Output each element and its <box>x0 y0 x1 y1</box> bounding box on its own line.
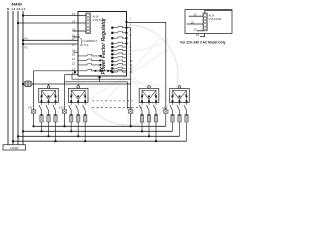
svg-text:16: 16 <box>196 33 200 37</box>
svg-text:20: 20 <box>191 21 195 25</box>
svg-text:14: 14 <box>72 20 76 24</box>
svg-text:17: 17 <box>72 37 76 41</box>
svg-text:P1: P1 <box>25 37 29 41</box>
svg-text:/ 5 A: / 5 A <box>83 43 89 47</box>
svg-text:15: 15 <box>194 27 198 31</box>
svg-text:13: 13 <box>72 12 76 16</box>
svg-text:P2: P2 <box>25 46 29 50</box>
svg-text:L3: L3 <box>11 7 15 11</box>
svg-text:L2: L2 <box>16 7 20 11</box>
svg-text:LOAD: LOAD <box>10 146 19 150</box>
svg-text:22: 22 <box>72 61 76 65</box>
svg-text:K11: K11 <box>28 105 33 109</box>
svg-text:VOLTAGE: VOLTAGE <box>209 17 222 21</box>
svg-text:21: 21 <box>72 57 76 61</box>
svg-text:13: 13 <box>194 13 198 17</box>
svg-text:K14: K14 <box>162 106 167 110</box>
svg-text:18: 18 <box>72 43 76 47</box>
svg-text:VOLTAGE: VOLTAGE <box>93 18 107 22</box>
svg-text:K12: K12 <box>59 105 64 109</box>
svg-text:For 220~240 V AC Model Only: For 220~240 V AC Model Only <box>180 40 225 44</box>
svg-text:15: 15 <box>72 28 76 32</box>
svg-text:L1: L1 <box>21 7 25 11</box>
svg-text:MAIN: MAIN <box>12 2 22 7</box>
svg-text:20: 20 <box>72 52 76 56</box>
